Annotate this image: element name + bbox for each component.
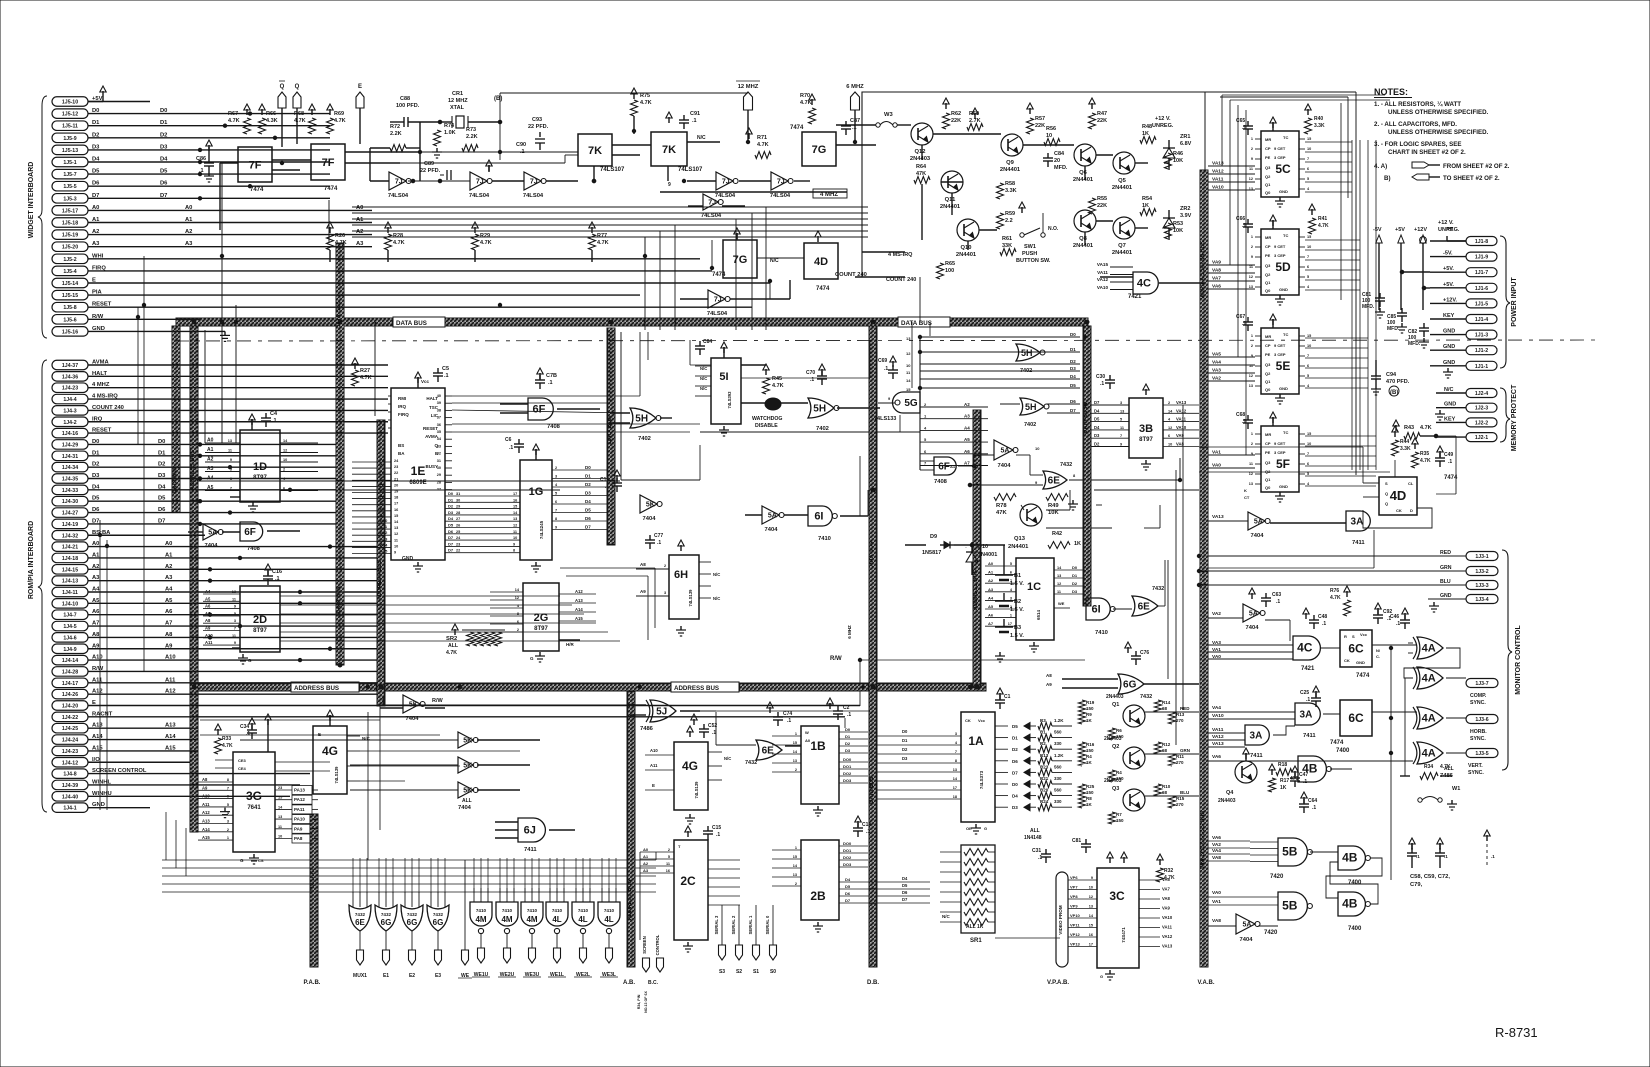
svg-text:8: 8 <box>513 549 515 553</box>
svg-text:(B): (B) <box>494 96 502 102</box>
IC U5F 74LS161 <box>1261 426 1299 492</box>
svg-text:5E: 5E <box>1276 359 1291 373</box>
svg-text:NOTES:: NOTES: <box>1374 87 1408 97</box>
inverter 7J e <box>771 172 788 190</box>
svg-text:31: 31 <box>437 459 441 463</box>
svg-text:D1: D1 <box>1070 347 1076 352</box>
svg-text:2: 2 <box>1010 605 1012 609</box>
svg-text:VA3: VA3 <box>1212 368 1221 374</box>
svg-text:R72: R72 <box>390 124 400 130</box>
svg-text:74LS04: 74LS04 <box>707 311 728 317</box>
address bus vertical col2 <box>377 420 385 706</box>
svg-text:R16: R16 <box>1086 742 1095 747</box>
capacitor C46 <box>1404 615 1406 620</box>
svg-text:1J5-10: 1J5-10 <box>62 100 78 106</box>
svg-text:7432: 7432 <box>407 912 418 917</box>
svg-text:5H: 5H <box>635 414 648 425</box>
svg-text:D7: D7 <box>448 548 454 553</box>
svg-text:13: 13 <box>1249 482 1253 486</box>
svg-text:.1: .1 <box>1100 381 1104 387</box>
svg-text:VIDEO ADDRESS BUS: VIDEO ADDRESS BUS <box>1200 810 1206 869</box>
capacitor C77 <box>649 535 651 540</box>
svg-text:MR: MR <box>1265 235 1271 240</box>
svg-text:15: 15 <box>793 855 797 859</box>
resistor R4 <box>1109 770 1116 782</box>
svg-text:1J4-16: 1J4-16 <box>62 431 78 437</box>
svg-text:R55: R55 <box>1097 196 1107 202</box>
svg-text:VA10: VA10 <box>1212 713 1224 719</box>
svg-text:6514: 6514 <box>1036 609 1041 620</box>
svg-text:R58: R58 <box>1005 181 1015 187</box>
svg-text:1J4-4: 1J4-4 <box>63 397 76 403</box>
svg-text:VA12: VA12 <box>1176 408 1187 413</box>
svg-text:7J: 7J <box>777 179 785 186</box>
nand gate 4L bottom row <box>598 902 620 926</box>
power input connector 1J1 <box>1466 237 1497 246</box>
resistor R67 <box>244 118 251 134</box>
cross coupling wires <box>1326 858 1382 898</box>
svg-text:A5: A5 <box>205 596 211 601</box>
svg-text:CT: CT <box>1244 495 1250 500</box>
transistor Q10 <box>957 219 979 241</box>
svg-text:R70: R70 <box>800 93 810 99</box>
svg-text:VA1: VA1 <box>1212 899 1221 905</box>
svg-text:11: 11 <box>1057 590 1061 594</box>
svg-text:1J3-3: 1J3-3 <box>1475 583 1488 589</box>
svg-text:1J5-13: 1J5-13 <box>62 148 78 154</box>
svg-text:A1: A1 <box>207 447 214 453</box>
svg-text:D7: D7 <box>160 193 167 199</box>
svg-text:C65: C65 <box>1236 118 1245 124</box>
svg-text:29: 29 <box>456 505 460 509</box>
svg-text:14: 14 <box>906 378 911 383</box>
svg-text:D4: D4 <box>902 876 908 881</box>
svg-text:D0: D0 <box>448 491 454 496</box>
svg-text:A10: A10 <box>92 655 103 661</box>
resistor R29 <box>472 234 479 250</box>
svg-text:.1: .1 <box>246 731 250 737</box>
svg-text:R59: R59 <box>1005 211 1015 217</box>
svg-text:1J5-17: 1J5-17 <box>62 208 78 214</box>
svg-text:17: 17 <box>1089 943 1093 947</box>
svg-text:OE: OE <box>966 826 972 831</box>
svg-text:GND: GND <box>1440 593 1452 599</box>
svg-text:FIRQ: FIRQ <box>92 265 106 271</box>
inverter 5K d <box>458 782 473 798</box>
svg-text:Q0: Q0 <box>1265 485 1271 490</box>
svg-text:8T97: 8T97 <box>1139 437 1153 443</box>
svg-text:2.2K: 2.2K <box>466 134 478 140</box>
svg-text:GND: GND <box>1279 287 1288 292</box>
resistor R14 <box>1155 700 1162 712</box>
svg-text:D5: D5 <box>845 884 851 889</box>
svg-text:D7: D7 <box>902 897 908 902</box>
svg-text:A0: A0 <box>988 561 994 566</box>
svg-text:D1: D1 <box>158 450 166 456</box>
svg-text:MONITOR CONTROL: MONITOR CONTROL <box>1515 625 1522 695</box>
svg-text:1.5 V.: 1.5 V. <box>1010 607 1024 613</box>
svg-text:VA11: VA11 <box>1212 727 1224 733</box>
svg-text:VA4: VA4 <box>1212 360 1221 366</box>
svg-text:1J1-1: 1J1-1 <box>1475 364 1488 370</box>
svg-text:R9: R9 <box>1086 712 1092 717</box>
svg-text:A9: A9 <box>640 589 646 594</box>
svg-text:4B: 4B <box>1302 762 1318 776</box>
svg-text:E1: E1 <box>383 973 389 979</box>
svg-text:1J5-15: 1J5-15 <box>62 293 78 299</box>
svg-text:2: 2 <box>1251 344 1253 348</box>
svg-text:D0: D0 <box>902 729 908 734</box>
svg-text:CP: CP <box>1265 343 1271 348</box>
svg-text:A2: A2 <box>964 402 970 407</box>
svg-text:N/C: N/C <box>1444 387 1454 393</box>
svg-text:PA10: PA10 <box>294 817 305 822</box>
svg-text:DO2: DO2 <box>843 855 852 860</box>
svg-text:5: 5 <box>555 492 557 496</box>
svg-text:5K: 5K <box>646 502 655 509</box>
svg-text:PE: PE <box>1265 352 1271 357</box>
svg-text:MFD.: MFD. <box>1054 165 1068 171</box>
svg-text:A4: A4 <box>92 587 100 593</box>
svg-text:E: E <box>358 84 362 90</box>
svg-text:7408: 7408 <box>247 546 261 552</box>
resistor R13 <box>1169 712 1176 724</box>
svg-text:1: 1 <box>1251 235 1253 239</box>
svg-text:C70: C70 <box>806 370 815 376</box>
svg-text:7420: 7420 <box>1264 930 1278 936</box>
svg-text:C63: C63 <box>1272 592 1281 598</box>
address bus vertical center-bottom (A.B.) <box>627 692 635 967</box>
svg-text:5A: 5A <box>1249 611 1258 618</box>
svg-text:+12 V.: +12 V. <box>1155 116 1171 122</box>
svg-text:74LS04: 74LS04 <box>715 193 736 199</box>
svg-text:VA2: VA2 <box>1212 842 1221 848</box>
svg-text:2B: 2B <box>810 889 826 903</box>
screen control arrows <box>643 958 650 972</box>
svg-text:E2: E2 <box>409 973 415 979</box>
resistor R32 <box>1157 868 1164 882</box>
svg-text:A2: A2 <box>185 229 192 235</box>
transistor Q6 <box>1074 144 1096 166</box>
svg-text:I/O: I/O <box>92 757 100 763</box>
svg-text:22K: 22K <box>1035 123 1045 129</box>
svg-text:VA8: VA8 <box>1212 918 1221 924</box>
svg-text:9: 9 <box>230 458 232 462</box>
svg-text:A0: A0 <box>805 738 811 743</box>
svg-text:1J4-35: 1J4-35 <box>62 477 78 483</box>
svg-text:A9: A9 <box>1046 682 1052 687</box>
svg-text:Q2: Q2 <box>1112 744 1119 750</box>
svg-text:12: 12 <box>1249 472 1253 476</box>
svg-text:1J5-7: 1J5-7 <box>63 172 76 178</box>
svg-text:1J2-2: 1J2-2 <box>1475 420 1488 426</box>
svg-text:7474: 7474 <box>790 125 804 131</box>
svg-text:MR: MR <box>1265 334 1271 339</box>
svg-text:W: W <box>805 730 809 735</box>
svg-text:11: 11 <box>232 634 236 638</box>
svg-text:C16: C16 <box>272 569 282 575</box>
and gate 6F low <box>240 522 263 541</box>
IC U1A 74LS273 <box>961 712 995 822</box>
svg-text:DO1: DO1 <box>843 848 852 853</box>
svg-text:C4: C4 <box>270 411 278 417</box>
svg-text:5J: 5J <box>656 707 667 718</box>
svg-text:10: 10 <box>1307 245 1311 249</box>
svg-text:7404: 7404 <box>643 516 657 522</box>
svg-text:6H: 6H <box>674 569 688 581</box>
svg-text:A0: A0 <box>380 457 386 462</box>
svg-text:WATCHDOG: WATCHDOG <box>752 416 782 422</box>
inverter 5K b <box>458 732 473 748</box>
svg-text:A13: A13 <box>165 723 176 729</box>
svg-text:A9: A9 <box>205 626 211 631</box>
svg-text:A0: A0 <box>92 205 99 211</box>
data bus vertical right of 1G <box>607 328 615 545</box>
svg-text:7410: 7410 <box>604 908 615 913</box>
svg-text:D1: D1 <box>1072 573 1078 578</box>
svg-text:ADDRESS BUS: ADDRESS BUS <box>973 570 979 610</box>
svg-text:C68: C68 <box>1236 412 1245 418</box>
resistor R66 <box>259 118 266 134</box>
svg-text:D4: D4 <box>1094 425 1100 430</box>
svg-text:C93: C93 <box>532 117 542 123</box>
svg-text:12: 12 <box>906 351 911 356</box>
svg-text:D6: D6 <box>585 516 591 521</box>
svg-text:1.2K: 1.2K <box>1054 718 1064 723</box>
svg-text:Q: Q <box>280 84 285 90</box>
svg-text:N/C: N/C <box>697 135 706 141</box>
IC U7G a 7474 <box>802 132 836 166</box>
svg-text:D6: D6 <box>160 181 168 187</box>
capacitor C86b <box>699 341 701 346</box>
svg-text:.1: .1 <box>605 484 609 490</box>
svg-text:A15: A15 <box>575 616 583 621</box>
svg-text:D1: D1 <box>1012 736 1018 741</box>
svg-text:ADDRESS BUS: ADDRESS BUS <box>377 560 383 600</box>
svg-text:1B: 1B <box>810 739 826 753</box>
svg-text:17: 17 <box>513 492 517 496</box>
svg-text:1J4-22: 1J4-22 <box>62 715 78 721</box>
svg-text:5H: 5H <box>1021 348 1033 358</box>
svg-text:D6: D6 <box>92 507 100 513</box>
svg-text:A3: A3 <box>92 241 100 247</box>
svg-text:4.7K: 4.7K <box>222 743 233 749</box>
svg-text:A1: A1 <box>950 464 956 469</box>
svg-text:5: 5 <box>1307 374 1309 378</box>
nand gate 6I a <box>808 506 832 526</box>
svg-text:7: 7 <box>955 750 957 754</box>
svg-text:1J4-6: 1J4-6 <box>63 635 76 641</box>
IC U4D b 7474 <box>1379 477 1417 515</box>
svg-text:74S471: 74S471 <box>1121 927 1126 943</box>
svg-text:R43: R43 <box>1404 425 1414 431</box>
svg-text:74LS139: 74LS139 <box>688 589 693 607</box>
svg-text:D7: D7 <box>1070 408 1076 413</box>
svg-text:R78: R78 <box>996 503 1007 509</box>
svg-text:1J1-4: 1J1-4 <box>1475 317 1488 323</box>
svg-text:A1: A1 <box>165 552 173 558</box>
svg-text:D1: D1 <box>902 738 908 743</box>
svg-text:A8: A8 <box>165 632 173 638</box>
svg-text:DATA BUS: DATA BUS <box>901 320 932 327</box>
svg-text:G: G <box>240 858 244 863</box>
svg-text:15: 15 <box>513 505 517 509</box>
svg-text:C49: C49 <box>1444 452 1453 458</box>
svg-text:VA12: VA12 <box>1162 934 1173 939</box>
svg-text:A14: A14 <box>575 607 583 612</box>
svg-text:1J3-4: 1J3-4 <box>1475 597 1488 603</box>
svg-text:D3: D3 <box>158 473 166 479</box>
svg-text:GND: GND <box>92 802 105 808</box>
svg-text:6F: 6F <box>244 527 256 538</box>
svg-text:A1: A1 <box>380 463 386 468</box>
svg-text:.1: .1 <box>866 829 870 835</box>
connector pill 1J3-6 <box>1466 715 1498 724</box>
svg-text:R11: R11 <box>1176 754 1185 759</box>
svg-text:4B: 4B <box>1342 851 1358 865</box>
svg-text:4L: 4L <box>552 915 561 924</box>
svg-text:A10: A10 <box>165 655 176 661</box>
svg-text:C15: C15 <box>712 825 721 831</box>
IC U5C 74LS161 <box>1261 131 1299 197</box>
svg-text:R1: R1 <box>1040 730 1046 735</box>
svg-text:30: 30 <box>456 498 460 502</box>
svg-text:3A: 3A <box>1351 517 1364 528</box>
transistor Q4 <box>1235 761 1257 783</box>
svg-text:2.2: 2.2 <box>1005 218 1013 224</box>
svg-text:2N4401: 2N4401 <box>1000 167 1021 173</box>
svg-text:7408: 7408 <box>547 424 561 430</box>
svg-text:68: 68 <box>1162 748 1168 753</box>
svg-text:MR: MR <box>1265 137 1271 142</box>
svg-text:36: 36 <box>437 423 441 427</box>
svg-text:6G: 6G <box>407 918 418 927</box>
or gate 6E bottom row <box>349 905 371 931</box>
svg-text:A5: A5 <box>964 437 970 442</box>
svg-text:4.7K: 4.7K <box>1330 595 1341 601</box>
svg-text:.1: .1 <box>1038 855 1042 861</box>
svg-text:VA8: VA8 <box>1162 896 1171 901</box>
svg-text:1J2-1: 1J2-1 <box>1475 435 1488 441</box>
svg-text:H/R: H/R <box>566 642 575 647</box>
IC U7K b 74LS107 <box>651 132 687 166</box>
svg-text:17: 17 <box>394 502 398 506</box>
svg-text:3 CEP: 3 CEP <box>1274 253 1286 258</box>
svg-text:4.7K: 4.7K <box>446 650 457 656</box>
svg-text:D2: D2 <box>1094 442 1100 447</box>
svg-text:5H: 5H <box>813 404 826 415</box>
svg-text:13: 13 <box>232 590 236 594</box>
svg-text:10: 10 <box>394 544 398 548</box>
svg-text:7404: 7404 <box>458 805 472 811</box>
svg-text:5: 5 <box>1307 472 1309 476</box>
svg-text:11: 11 <box>1249 265 1253 269</box>
svg-text:Q3: Q3 <box>1112 786 1119 792</box>
switch SW1 push button <box>1020 233 1024 237</box>
svg-text:ZR2: ZR2 <box>1180 206 1190 212</box>
svg-text:9 CET: 9 CET <box>1274 146 1286 151</box>
svg-text:D.B.: D.B. <box>867 980 879 986</box>
svg-text:BLU: BLU <box>1180 790 1189 795</box>
svg-text:VA7: VA7 <box>1212 276 1221 282</box>
IC U5E 74LS161 <box>1261 328 1299 394</box>
svg-text:1: 1 <box>1251 334 1253 338</box>
svg-text:1J4-18: 1J4-18 <box>62 556 78 562</box>
svg-text:GND: GND <box>402 556 414 562</box>
svg-text:D3: D3 <box>160 144 168 150</box>
svg-text:1: 1 <box>1010 614 1012 618</box>
svg-text:D3: D3 <box>1094 433 1100 438</box>
svg-text:10: 10 <box>906 363 911 368</box>
svg-text:A7: A7 <box>988 621 994 626</box>
svg-text:470: 470 <box>1290 776 1299 782</box>
svg-text:2: 2 <box>1251 245 1253 249</box>
resistor R78 <box>994 494 1016 501</box>
svg-text:C67: C67 <box>1236 314 1245 320</box>
svg-text:11: 11 <box>1120 426 1124 430</box>
svg-text:R12: R12 <box>1162 742 1171 747</box>
svg-text:1J1-8: 1J1-8 <box>1475 239 1488 245</box>
svg-text:A0: A0 <box>92 541 99 547</box>
svg-text:.1: .1 <box>548 380 553 386</box>
svg-text:1J5-3: 1J5-3 <box>63 196 76 202</box>
inverter 5A low <box>203 524 218 540</box>
svg-text:7432: 7432 <box>1152 586 1164 592</box>
svg-text:VA11: VA11 <box>1176 417 1187 422</box>
svg-text:270: 270 <box>1176 718 1184 723</box>
svg-text:R7: R7 <box>1116 812 1122 817</box>
svg-text:7: 7 <box>1307 452 1309 456</box>
svg-text:D4: D4 <box>160 157 168 163</box>
svg-text:PUSH: PUSH <box>1022 251 1037 257</box>
IC U4G 74LS139 a <box>313 726 347 794</box>
svg-text:1J5-18: 1J5-18 <box>62 221 78 227</box>
svg-text:3: 3 <box>234 619 236 623</box>
svg-text:CE3: CE3 <box>238 758 247 763</box>
svg-text:C.: C. <box>1376 654 1380 659</box>
svg-text:Q3: Q3 <box>1265 165 1271 170</box>
capacitor C49 <box>1439 453 1441 458</box>
resistor R16 <box>1079 742 1086 754</box>
xor gate 4A a <box>1417 637 1443 659</box>
svg-text:1. - ALL RESISTORS, ¼ WATT: 1. - ALL RESISTORS, ¼ WATT <box>1374 101 1461 108</box>
xor gate 5J 7486 <box>650 700 676 722</box>
svg-text:7432: 7432 <box>745 760 757 766</box>
data bus vertical col2 <box>336 243 344 665</box>
svg-text:WINHU: WINHU <box>92 791 112 797</box>
svg-text:5: 5 <box>1120 418 1122 422</box>
svg-text:A2: A2 <box>92 229 99 235</box>
resistor R56 <box>1044 139 1060 146</box>
svg-text:2N4403: 2N4403 <box>1218 798 1236 804</box>
svg-text:1N4148: 1N4148 <box>1024 835 1042 841</box>
svg-text:R32: R32 <box>1164 868 1173 874</box>
svg-text:VP7: VP7 <box>1070 885 1078 890</box>
connector pill 1J3-4 <box>1466 595 1498 604</box>
svg-text:1J4-30: 1J4-30 <box>62 499 78 505</box>
or gate 6G bottom row <box>401 905 423 931</box>
svg-text:R44: R44 <box>1400 439 1409 445</box>
svg-text:D6: D6 <box>902 890 908 895</box>
wire verticals monitor <box>1390 648 1392 880</box>
capacitor C68 <box>1247 415 1249 420</box>
svg-text:1J4-10: 1J4-10 <box>62 601 78 607</box>
capacitor C52 <box>703 724 705 729</box>
svg-text:15: 15 <box>793 741 797 745</box>
svg-text:5: 5 <box>1307 275 1309 279</box>
svg-text:PE: PE <box>1265 253 1271 258</box>
svg-text:XTAL: XTAL <box>450 105 465 111</box>
